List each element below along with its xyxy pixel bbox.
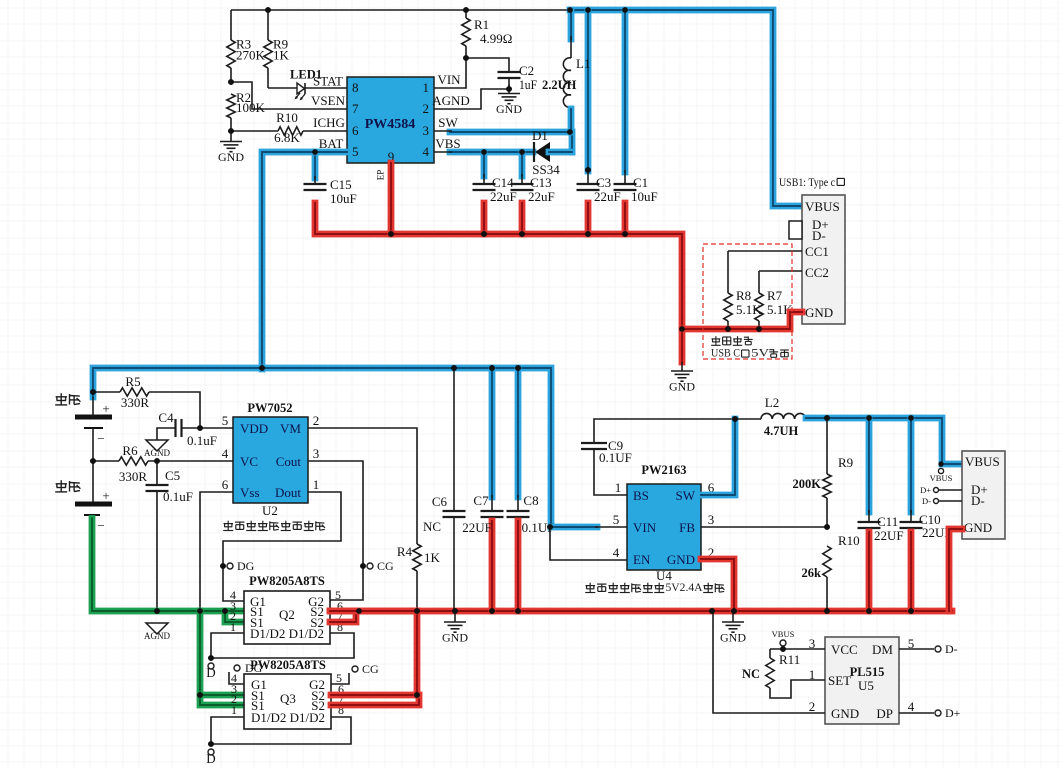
svg-text:R10: R10 [276, 110, 298, 125]
node SW/L1 junction [567, 129, 573, 135]
svg-text:D+: D+ [945, 706, 961, 720]
svg-text:BS: BS [633, 488, 649, 503]
pin VBUS tap PL515 [772, 629, 795, 652]
svg-text:GND: GND [442, 631, 468, 645]
wire FB [701, 526, 827, 528]
svg-text:1: 1 [423, 80, 430, 95]
svg-text:VBUS: VBUS [965, 454, 1000, 469]
node junction R9/top rail [265, 7, 271, 13]
wire main ground bus red [330, 608, 952, 615]
capacitor C13 [511, 152, 555, 234]
notch D+/D- on USB1 [789, 221, 802, 239]
svg-text:D1/D2: D1/D2 [251, 710, 286, 725]
svg-text:GND: GND [496, 102, 522, 116]
resistor R6 330R [93, 443, 233, 484]
capacitor C7 22UF [462, 368, 503, 611]
wire VBUS GND red [949, 529, 962, 611]
node PL515 bus junction [709, 608, 715, 614]
svg-text:D1/D2: D1/D2 [290, 710, 325, 725]
svg-text:3: 3 [313, 446, 320, 461]
svg-text:VC: VC [240, 454, 258, 469]
node C5/green junction [154, 608, 160, 614]
inductor L1 2.2UH [542, 10, 590, 132]
node Q2 drain tap [208, 655, 214, 661]
node R2/R10 junction [228, 128, 234, 134]
wire Q3 S2 red [331, 692, 417, 699]
svg-text:R1: R1 [474, 17, 489, 32]
node R5 tap [90, 389, 96, 395]
capacitor C6 [432, 368, 466, 611]
transistor Q3 PW8205A8TS [244, 658, 331, 729]
wire Q3 S2 jog red [331, 695, 419, 705]
node C7 top junction [489, 365, 495, 371]
svg-text:10uF: 10uF [330, 191, 357, 206]
wire top ground bus red [391, 234, 682, 362]
svg-text:VDD: VDD [240, 421, 268, 436]
node C5/VC junction [154, 458, 160, 464]
svg-text:NC: NC [742, 667, 760, 681]
label U4 pin numbers [613, 480, 715, 560]
node VBS/C13 junction [519, 149, 525, 155]
node FB junction [824, 524, 830, 530]
box communication resistor dashed [703, 244, 792, 359]
svg-text:U5: U5 [858, 678, 874, 693]
chip U4 PW2163 [627, 463, 701, 583]
svg-text:4.7UH: 4.7UH [764, 424, 799, 438]
node Vss/green junction [197, 608, 203, 614]
node Q2 S2 junction [356, 608, 362, 614]
svg-text:PW7052: PW7052 [247, 401, 292, 415]
svg-text:1K: 1K [424, 550, 441, 565]
node VIN/EN junction [547, 524, 553, 530]
svg-text:−: − [97, 431, 104, 446]
chip U2 PW7052 [233, 401, 308, 518]
svg-text:330R: 330R [119, 469, 148, 484]
svg-text:Vss: Vss [240, 485, 260, 500]
svg-text:2: 2 [313, 413, 320, 428]
node C1/bus junction [622, 231, 628, 237]
wire AGND pin 2 [434, 89, 509, 109]
node Q3 drain tap [208, 741, 214, 747]
node L1 top junction [567, 7, 573, 13]
svg-text:D-: D- [922, 496, 931, 506]
inductor L2 4.7UH [735, 395, 806, 438]
pin CG stub Q3 [331, 662, 379, 684]
label U5 pin numbers [809, 636, 915, 714]
svg-text:DP: DP [876, 706, 893, 721]
svg-text:1uF: 1uF [519, 77, 537, 92]
svg-text:6: 6 [352, 123, 359, 138]
resistor R11 NC [742, 649, 825, 698]
node C11 bus junction [866, 608, 872, 614]
svg-text:U2: U2 [262, 503, 278, 518]
svg-text:GND: GND [720, 631, 746, 645]
svg-text:270K: 270K [236, 48, 266, 63]
svg-text:FB: FB [679, 520, 695, 535]
pin DP output [899, 706, 961, 720]
resistor R4 1K [397, 544, 441, 611]
svg-text:NC: NC [423, 519, 441, 534]
node C8 bus junction [515, 608, 521, 614]
ground GND (C2) [496, 85, 522, 117]
wire Q2 S2 jog red [330, 611, 356, 622]
svg-text:R6: R6 [122, 443, 138, 458]
capacitor C14 [473, 152, 517, 234]
svg-text:PW8205A8TS: PW8205A8TS [249, 574, 325, 588]
svg-text:5V: 5V [751, 348, 770, 360]
node C10 bus junction [908, 608, 914, 614]
svg-text:C4: C4 [158, 410, 174, 425]
svg-text:+: + [102, 488, 109, 503]
svg-text:C6: C6 [432, 494, 448, 509]
svg-text:1: 1 [313, 477, 320, 492]
svg-text:VBUS: VBUS [930, 473, 953, 483]
wire Cout to CG [308, 461, 363, 600]
svg-text:4.99Ω: 4.99Ω [480, 31, 512, 46]
svg-text:200K: 200K [793, 477, 822, 491]
label Q2 pin numbers [230, 588, 343, 634]
svg-text:VBUS: VBUS [805, 199, 840, 214]
battery B1 [55, 393, 112, 446]
svg-text:2: 2 [423, 101, 430, 116]
svg-text:C11: C11 [877, 514, 898, 529]
resistor R10 with ICHG wire [231, 110, 347, 145]
node C6/bus junction [452, 608, 458, 614]
svg-text:0.1UF: 0.1UF [599, 450, 632, 465]
wire USB GND red [682, 312, 802, 329]
pin D- tap [922, 496, 962, 506]
label Q3 pin numbers [231, 671, 344, 717]
svg-text:AGND: AGND [144, 631, 170, 641]
svg-text:SET: SET [828, 673, 851, 688]
svg-text:22uF: 22uF [490, 189, 517, 204]
svg-text:C15: C15 [330, 177, 352, 192]
svg-text:AGND: AGND [432, 93, 470, 108]
svg-text:GND: GND [667, 552, 695, 567]
svg-text:DG: DG [237, 559, 255, 573]
svg-text:−: − [97, 518, 104, 533]
svg-text:5: 5 [222, 413, 229, 428]
connector USB1 Type-C [802, 195, 845, 324]
wire SW node blue [450, 132, 572, 152]
svg-text:D-: D- [971, 493, 985, 508]
wire SW blue [701, 419, 735, 495]
chip U5 PL515 [825, 637, 899, 724]
wire battery mid [92, 428, 94, 504]
pin VBUS tap [930, 468, 953, 483]
node SW/L2 junction [732, 416, 738, 422]
svg-text:3: 3 [423, 123, 430, 138]
wire VIN pin [595, 526, 627, 528]
node green Q3 junction [197, 692, 203, 698]
node Q3 S2 junction [414, 692, 420, 698]
resistor R9 200K [793, 418, 854, 527]
svg-text:4: 4 [613, 545, 620, 560]
node BAT rail junction [259, 365, 265, 371]
ground GND (output) [720, 613, 746, 645]
ground GND (charger input divider) [218, 133, 244, 165]
pin DG stub Q2 [227, 559, 255, 573]
svg-text:D1/D2: D1/D2 [250, 626, 285, 641]
pin DG stub Q3 [229, 661, 263, 684]
resistor R5 330R [93, 374, 200, 428]
resistor R2 [227, 90, 266, 131]
node R1 bottom junction [463, 55, 469, 61]
svg-text:R4: R4 [397, 544, 413, 559]
node R10 bus junction [824, 608, 830, 614]
svg-text:SW: SW [438, 115, 458, 130]
node R3/R2 junction [228, 79, 234, 85]
capacitor C2 [466, 58, 537, 92]
svg-text:1: 1 [615, 480, 622, 495]
pin D+ tap [920, 485, 962, 495]
svg-text:L2: L2 [765, 395, 779, 410]
svg-text:CG: CG [377, 559, 394, 573]
node C6 top junction [451, 365, 457, 371]
svg-text:R8: R8 [736, 288, 751, 303]
svg-text:R9: R9 [838, 455, 853, 470]
svg-text:R10: R10 [838, 533, 860, 548]
svg-text:6: 6 [222, 477, 229, 492]
svg-text:3: 3 [708, 512, 715, 527]
svg-text:C3: C3 [596, 175, 611, 190]
transistor Q2 PW8205A8TS [244, 574, 330, 644]
svg-text:D: D [206, 751, 215, 766]
resistor R7 5.1K [755, 271, 793, 329]
svg-text:4: 4 [423, 144, 430, 159]
node VBS/C14 junction [481, 149, 487, 155]
svg-text:EP: EP [376, 170, 386, 181]
svg-text:L1: L1 [576, 56, 590, 71]
svg-text:D1/D2: D1/D2 [289, 626, 324, 641]
svg-text:10uF: 10uF [631, 189, 658, 204]
wire VBUS output blue [806, 418, 962, 464]
node R7/gnd junction [756, 326, 762, 332]
node C11 top junction [866, 415, 872, 421]
svg-text:VM: VM [280, 421, 301, 436]
svg-text:4: 4 [222, 446, 229, 461]
svg-text:330R: 330R [121, 395, 150, 410]
svg-text:1: 1 [230, 620, 236, 634]
svg-text:GND: GND [669, 380, 695, 394]
wire green to Q3 [200, 611, 244, 705]
svg-text:C14: C14 [492, 175, 514, 190]
wire EP pin red [388, 163, 395, 234]
wire battery positive rail blue [93, 368, 551, 527]
node C3 top junction [585, 7, 591, 13]
svg-text:8: 8 [352, 80, 359, 95]
svg-text:100K: 100K [236, 100, 266, 115]
capacitor C4 0.1uF [157, 410, 217, 448]
svg-text:R5: R5 [125, 374, 140, 389]
capacitor C10 22UF [900, 418, 952, 611]
wire CC2 [759, 270, 802, 272]
svg-text:R11: R11 [779, 652, 800, 667]
svg-text:R7: R7 [767, 288, 783, 303]
connector VBUS output [962, 451, 1005, 539]
svg-text:GND: GND [805, 305, 833, 320]
svg-text:D1: D1 [532, 128, 548, 143]
wire battery negative green [92, 519, 225, 612]
svg-text:EN: EN [633, 552, 651, 567]
capacitor C11 22UF [858, 418, 904, 611]
node BAT/C15 junction [312, 149, 318, 155]
pin D stub Q2 [206, 663, 215, 680]
svg-text:Dout: Dout [275, 485, 301, 500]
svg-text:GND: GND [964, 520, 992, 535]
svg-text:VSEN: VSEN [311, 93, 346, 108]
svg-text:Q3: Q3 [280, 691, 296, 706]
svg-text:C7: C7 [473, 493, 489, 508]
svg-text:ICHG: ICHG [313, 115, 345, 130]
svg-text:SW: SW [676, 488, 696, 503]
wire VIN pin [434, 58, 466, 88]
svg-text:0.1uF: 0.1uF [187, 433, 217, 448]
svg-text:VIN: VIN [633, 520, 657, 535]
wire PL515 GND [713, 611, 825, 713]
capacitor C3 [577, 10, 621, 234]
wire Vss pin [200, 492, 233, 611]
svg-text:2: 2 [809, 699, 816, 714]
wire red drop to Q3 [414, 611, 421, 695]
svg-text:D: D [206, 665, 215, 680]
wire Dout loop to DG [223, 492, 341, 601]
svg-text:DG: DG [245, 661, 263, 675]
svg-text:VBUS: VBUS [772, 629, 795, 639]
capacitor C15 [304, 152, 392, 234]
wire Q3 drain loop [211, 717, 351, 744]
node EP/bus junction [388, 231, 394, 237]
svg-text:PL515: PL515 [850, 665, 885, 679]
svg-text:USB1: Type c: USB1: Type c [779, 175, 835, 189]
node R4/bus junction [414, 608, 420, 614]
svg-text:C5: C5 [165, 468, 180, 483]
wire BAT blue [262, 152, 347, 369]
resistor R10 26k [802, 533, 860, 611]
wire top rail (VIN net) [231, 9, 570, 11]
node VBUS tap junction [938, 461, 943, 466]
svg-text:DM: DM [872, 642, 893, 657]
node junction R1/top rail [463, 7, 469, 13]
svg-text:26k: 26k [802, 566, 822, 580]
svg-text:D-: D- [945, 642, 958, 656]
svg-text:2.2UH: 2.2UH [542, 78, 577, 92]
pin CG stub Q2 [367, 559, 394, 573]
svg-text:5: 5 [352, 144, 359, 159]
wire VIN blue stub [551, 524, 597, 531]
svg-text:6.8K: 6.8K [274, 130, 300, 145]
ground AGND (battery) [144, 623, 170, 641]
diode D1 SS34 [532, 128, 572, 177]
wire U4 GND red [701, 559, 734, 611]
svg-text:5: 5 [613, 512, 620, 527]
svg-text:VIN: VIN [437, 72, 461, 87]
svg-text:1: 1 [231, 703, 237, 717]
node R6 tap [90, 458, 96, 464]
wire top VBUS rail blue [570, 10, 802, 206]
ground GND (USB section) [669, 362, 695, 394]
svg-text:STAT: STAT [313, 74, 343, 89]
ground GND (C6) [442, 613, 468, 645]
node C14/bus junction [481, 231, 487, 237]
label communication resistors (Chinese) [711, 336, 789, 359]
svg-text:VBS: VBS [435, 136, 460, 151]
node C3/bus junction [585, 231, 591, 237]
node C4/VDD junction [197, 425, 203, 431]
pin 9 EP label [376, 170, 386, 181]
wire green S1 jog Q2 [225, 608, 244, 615]
svg-text:22UF: 22UF [462, 520, 492, 535]
resistor R9 [264, 10, 290, 88]
wire VSEN branch [231, 82, 347, 109]
svg-text:+: + [102, 401, 109, 416]
svg-text:VCC: VCC [831, 642, 858, 657]
node U4 GND bus junction [731, 608, 737, 614]
svg-text:C8: C8 [523, 493, 538, 508]
wire VM to R4 [308, 428, 417, 544]
svg-text:D+: D+ [920, 485, 931, 495]
wire VBS node blue [450, 149, 533, 156]
svg-text:CC2: CC2 [805, 265, 829, 280]
svg-text:CG: CG [362, 662, 379, 676]
svg-text:5.1K: 5.1K [736, 302, 762, 317]
wire VDD pin stub [200, 427, 233, 429]
svg-text:CC1: CC1 [805, 244, 829, 259]
ground AGND (C4) [144, 440, 170, 458]
label buck circuit (Chinese) [585, 580, 724, 594]
svg-text:C2: C2 [519, 63, 534, 78]
node C13/bus junction [519, 231, 525, 237]
LED LED1 with STAT wire [268, 68, 347, 101]
svg-text:22uF: 22uF [594, 189, 621, 204]
capacitor C9 0.1UF bootstrap [581, 419, 735, 495]
label USB1: Type c port [779, 175, 844, 189]
svg-text:C1: C1 [633, 175, 648, 190]
svg-text:GND: GND [831, 706, 859, 721]
node C10 top junction [908, 415, 914, 421]
node CG tap Q2 [360, 563, 366, 569]
svg-text:0.1uF: 0.1uF [163, 489, 193, 504]
node C7 bus junction [489, 608, 495, 614]
wire Q2 drain loop [211, 633, 354, 658]
wire Q2 S2 red [330, 608, 417, 615]
resistor R1 [462, 10, 513, 58]
svg-text:4: 4 [908, 699, 915, 714]
svg-text:7: 7 [352, 101, 359, 116]
op-amp U1 charger chip PW4584 [347, 77, 434, 164]
svg-text:PW4584: PW4584 [365, 117, 416, 132]
node C2/AGND junction [506, 86, 512, 92]
svg-text:GND: GND [218, 150, 244, 164]
svg-text:Q2: Q2 [279, 607, 295, 622]
svg-text:5V2.4A: 5V2.4A [666, 580, 703, 594]
node C8 top junction [515, 365, 521, 371]
svg-text:AGND: AGND [144, 448, 170, 458]
resistor R3 [227, 10, 266, 82]
pin DM output [899, 642, 958, 656]
battery B2 [55, 480, 112, 533]
svg-text:PW2163: PW2163 [641, 463, 686, 477]
svg-text:C13: C13 [530, 175, 552, 190]
wire VCC [770, 648, 825, 650]
wire CC1 [728, 250, 802, 252]
node DG tap Q2 [220, 563, 226, 569]
node R8/gnd junction [725, 326, 731, 332]
pin D stub Q3 [206, 749, 215, 766]
svg-text:22uF: 22uF [528, 189, 555, 204]
label protection circuit (Chinese) [223, 521, 325, 531]
node USB ground branch junction [679, 326, 685, 332]
